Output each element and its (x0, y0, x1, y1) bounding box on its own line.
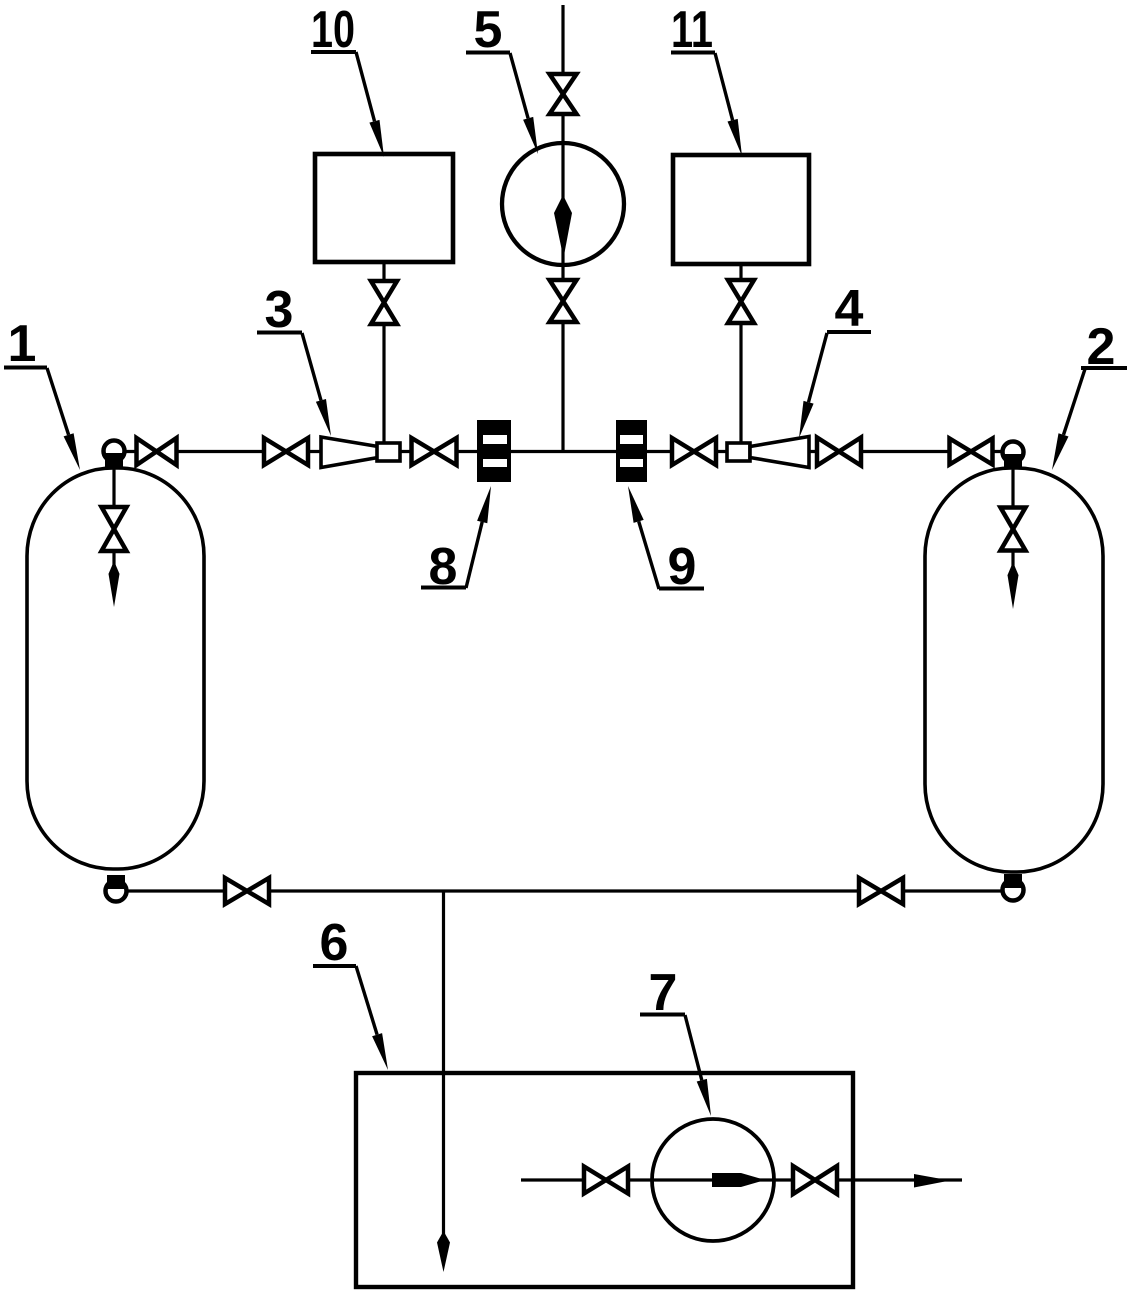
box 10 (315, 154, 453, 262)
label 5 underline (466, 51, 510, 55)
svg-text:4: 4 (835, 280, 864, 338)
tank 2 (925, 468, 1103, 872)
wire drain line down to tank 6 (442, 891, 445, 1238)
svg-text:3: 3 (265, 281, 294, 339)
fitting on tank 2 top nozzle (1003, 442, 1024, 469)
venturi 3 (321, 437, 378, 468)
flow arrow on pump discharge line (914, 1174, 950, 1188)
box 11 (673, 155, 809, 264)
valve A on tank 1 top outlet (137, 438, 177, 465)
label 2 underline (1081, 366, 1127, 370)
valve J right of pump 7 (793, 1166, 837, 1194)
valve I left of pump 7 (584, 1167, 628, 1194)
wire through flow meter 5 (561, 143, 564, 266)
wire top inlet to valve above flow meter 5 (561, 5, 564, 75)
valve inside tank 1 dip tube (102, 507, 127, 551)
flow arrow inside flow meter 5 (554, 195, 572, 258)
valve F at tank 2 top inlet (950, 439, 993, 465)
label 7 underline (640, 1013, 685, 1017)
label 8 leader (466, 486, 491, 588)
venturi 4 (750, 437, 809, 468)
fitting on tank 2 bottom nozzle (1003, 874, 1024, 901)
label 10 underline (311, 50, 356, 54)
label 9 underline (659, 587, 704, 591)
valve E right of venturi 4 (817, 438, 861, 466)
svg-text:5: 5 (474, 1, 503, 59)
label 3 leader (302, 333, 331, 436)
wire tank 2 top internal dip tube (1011, 461, 1014, 509)
label 5 leader (510, 53, 538, 154)
wire box 11 to its valve (739, 265, 742, 281)
wire lower valve to main header (561, 321, 564, 452)
square fitting S4 (727, 443, 750, 461)
pump 7 circle (652, 1119, 774, 1241)
svg-text:6: 6 (320, 914, 349, 972)
label 11 leader (715, 53, 742, 156)
valve H on bottom header right (859, 878, 903, 904)
valve below flow meter 5 (550, 280, 577, 322)
flow arrow at end of drain line (437, 1231, 450, 1272)
valve C right of square S3 (412, 438, 457, 465)
valve below box 10 (371, 281, 397, 324)
wire pump suction/discharge line (521, 1178, 962, 1181)
label 2 leader (1052, 369, 1085, 470)
label 4 underline (827, 330, 871, 334)
tank 6 (water tank) (356, 1073, 853, 1287)
label 4 leader (799, 333, 827, 438)
valve B left of venturi 3 (264, 438, 308, 465)
restrictor 8 (hatched block) (477, 420, 511, 482)
valve D right of restrictor 9 (672, 438, 716, 465)
valve below box 11 (728, 280, 754, 323)
svg-text:1: 1 (8, 315, 37, 373)
flow arrow inside pump 7 (712, 1173, 765, 1187)
label 8 underline (421, 586, 466, 590)
label 10 leader (356, 52, 384, 157)
wire box 10 to its valve (382, 263, 385, 282)
wire valve to flow meter 5 (561, 113, 564, 143)
flow arrow in tank 2 dip tube (1008, 562, 1019, 609)
wire flow meter 5 to lower valve (561, 266, 564, 281)
label 11 underline (671, 51, 715, 55)
svg-text:11: 11 (671, 1, 713, 59)
valve above flow meter 5 (550, 74, 577, 114)
tank 1 (27, 468, 204, 869)
fitting on tank 1 bottom nozzle (106, 875, 127, 902)
label 9 leader (628, 486, 659, 589)
square fitting S3 (377, 443, 400, 461)
wire tank 2 dip tube below valve (1011, 550, 1014, 573)
flow meter 5 circle (502, 143, 624, 265)
label 3 underline (257, 331, 302, 335)
flow arrow in tank 1 dip tube (109, 561, 120, 607)
label 6 leader (356, 966, 388, 1070)
label 1 underline (4, 366, 47, 370)
restrictor 9 (hatched block) (616, 420, 647, 482)
wire main header pipe (114, 450, 1013, 453)
wire valve to square fitting S4 (739, 322, 742, 445)
valve inside tank 2 dip tube (1001, 508, 1026, 551)
valve G on bottom header left (225, 878, 269, 904)
label 6 underline (313, 964, 356, 968)
fitting on tank 1 top nozzle (104, 441, 125, 468)
wire tank 1 dip tube below valve (112, 550, 115, 572)
wire tank 1 top internal dip tube (112, 460, 115, 509)
wire valve to square fitting S3 (382, 323, 385, 445)
wire bottom header pipe (116, 889, 1013, 892)
label 7 leader (685, 1015, 711, 1116)
label 1 leader (47, 368, 80, 470)
